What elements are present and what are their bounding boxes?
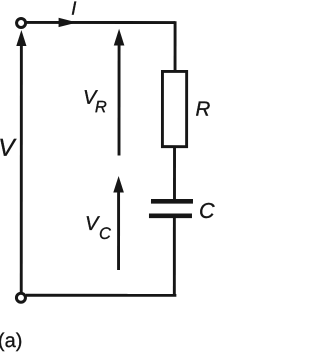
capacitor C top plate [151, 199, 193, 204]
voltage arrow VR [118, 43, 121, 155]
capacitor C bottom plate [149, 214, 192, 219]
voltage arrow V (left wire) [20, 41, 23, 292]
wire bottom [26, 294, 176, 297]
wire capacitor to bottom [173, 218, 176, 296]
wire top [26, 21, 175, 24]
svg-text:R: R [196, 98, 211, 121]
svg-text:V: V [0, 135, 17, 162]
wire resistor to capacitor [173, 148, 176, 200]
current arrowhead I [59, 18, 78, 27]
terminal node bottom-left [16, 293, 25, 302]
svg-text:I: I [71, 0, 77, 20]
voltage arrow VC [117, 190, 120, 270]
svg-text:C: C [99, 225, 111, 243]
wire right upper [174, 21, 177, 70]
svg-text:(a): (a) [0, 330, 22, 352]
svg-text:C: C [199, 199, 215, 223]
svg-text:V: V [85, 213, 100, 235]
terminal node top-left [17, 18, 26, 27]
svg-text:R: R [95, 98, 107, 116]
resistor R [162, 71, 186, 146]
